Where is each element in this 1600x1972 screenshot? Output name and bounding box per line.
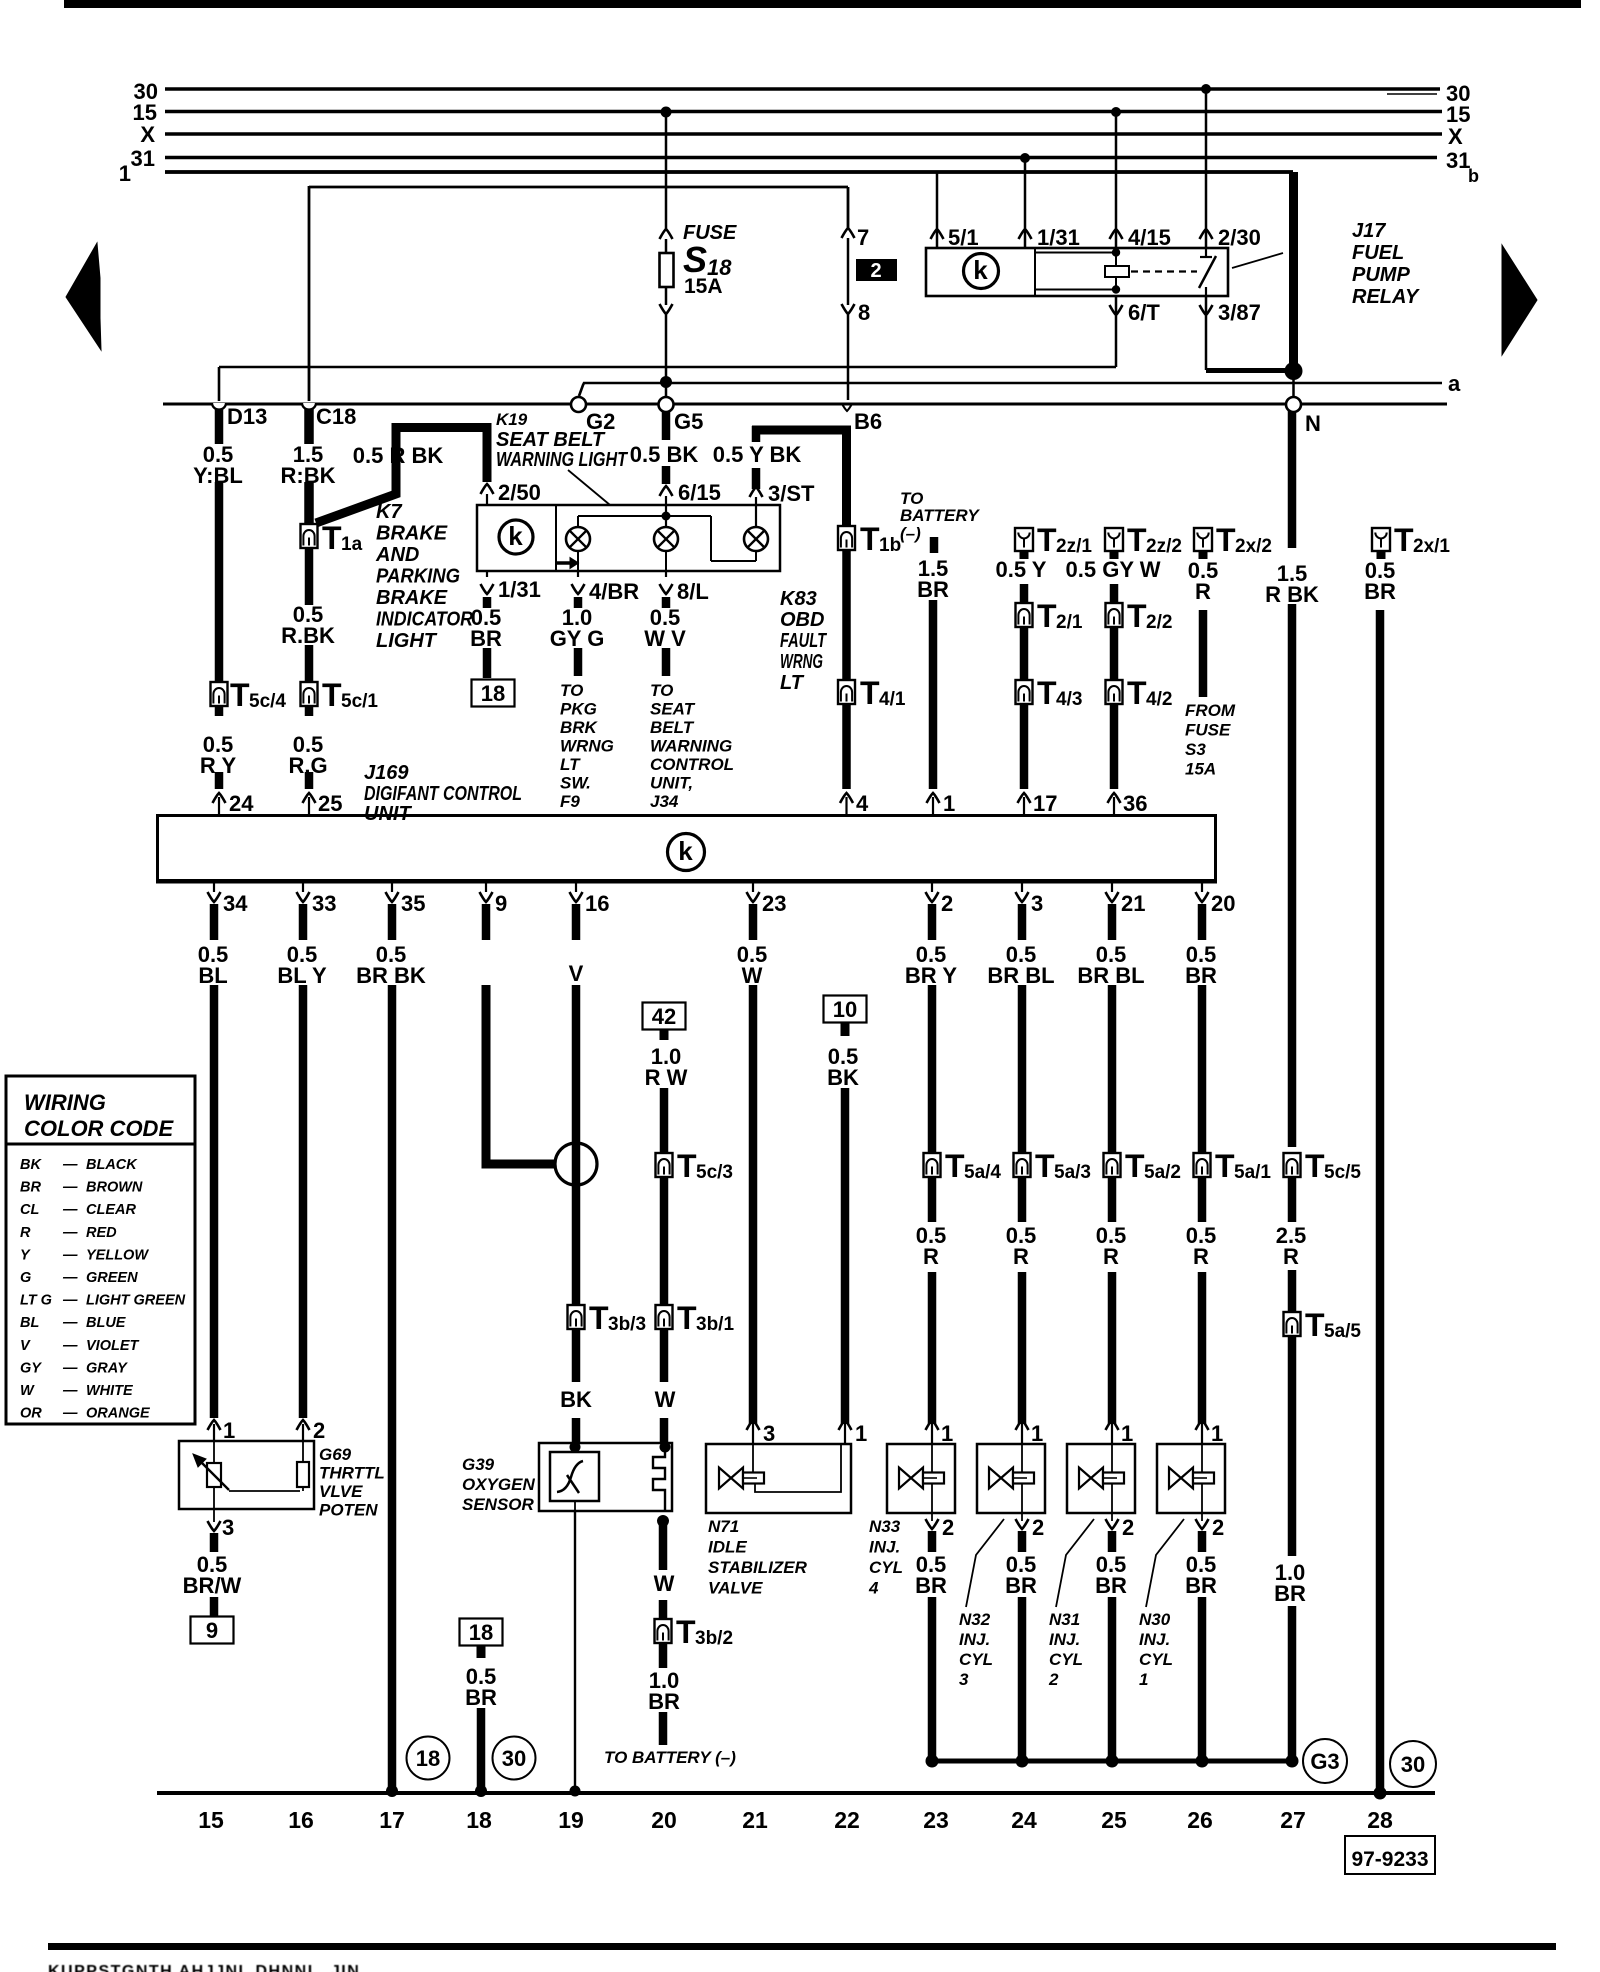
svg-text:G: G (20, 1270, 31, 1286)
svg-text:1: 1 (941, 1421, 953, 1446)
svg-text:BL: BL (20, 1315, 39, 1331)
wire T4/1 to J169 pin 4 (842, 704, 851, 789)
svg-text:BR: BR (470, 626, 502, 651)
svg-text:FUSE: FUSE (1185, 721, 1231, 740)
svg-text:25: 25 (1101, 1807, 1127, 1833)
connector T3b/1 (656, 1305, 673, 1329)
relay J17 box (926, 248, 1228, 296)
injector N33 cylinder 4 (887, 1444, 955, 1513)
svg-text:R.BK: R.BK (281, 623, 335, 648)
svg-text:2: 2 (941, 891, 953, 916)
wire T4/3 to J169 pin 17 (1020, 704, 1029, 789)
relay J17 divider (1034, 248, 1036, 296)
svg-text:BR: BR (465, 1685, 497, 1710)
svg-text:1: 1 (1121, 1421, 1133, 1446)
connector T5a/5 (1284, 1312, 1301, 1336)
svg-text:5c/4: 5c/4 (249, 691, 286, 712)
svg-text:6/15: 6/15 (678, 480, 721, 505)
svg-text:OXYGEN: OXYGEN (462, 1475, 535, 1494)
svg-text:BR: BR (915, 1573, 947, 1598)
svg-text:17: 17 (1033, 791, 1057, 816)
terminal C18 (302, 403, 316, 410)
svg-text:23: 23 (923, 1807, 949, 1833)
svg-text:Y: Y (20, 1247, 31, 1263)
G69 pin 1 (213, 1424, 215, 1441)
svg-text:VALVE: VALVE (708, 1579, 763, 1598)
svg-text:k: k (973, 255, 988, 285)
svg-text:T: T (1394, 522, 1414, 558)
svg-text:INDICATOR: INDICATOR (376, 609, 473, 631)
svg-text:23: 23 (762, 891, 786, 916)
svg-text:GRAY: GRAY (86, 1360, 128, 1376)
connector T2x/2 (1194, 528, 1212, 551)
K7 pin 8/L (665, 571, 667, 577)
K7 / K19 / K83 lamp box (477, 505, 780, 571)
svg-text:BRAKE: BRAKE (376, 523, 448, 545)
svg-text:BATTERY: BATTERY (900, 506, 980, 525)
svg-text:2: 2 (1032, 1515, 1044, 1540)
wire 0.5 R BK to K19 lamp feed (316, 428, 487, 524)
svg-text:DIGIFANT CONTROL: DIGIFANT CONTROL (364, 783, 522, 805)
terminal D13 (212, 403, 226, 410)
svg-text:J169: J169 (364, 762, 409, 784)
connector T2/1 (1016, 603, 1033, 627)
J169 pin 24 (218, 797, 220, 814)
svg-text:3: 3 (222, 1515, 234, 1540)
throttle valve potentiometer G69 box (179, 1441, 314, 1509)
K7 pin 3/ST (750, 487, 763, 497)
junction dot track 18 rail (475, 1785, 487, 1797)
connector T1b (838, 526, 855, 550)
connector T2z/2 (1105, 528, 1123, 551)
wire 34 to G69 pin 1 (210, 985, 219, 1418)
svg-text:J17: J17 (1352, 220, 1386, 242)
svg-text:1: 1 (1211, 1421, 1223, 1446)
svg-text:W: W (654, 1571, 675, 1596)
svg-text:10: 10 (833, 997, 857, 1022)
wire between connectors 7 and 8 (847, 238, 850, 305)
G69 potentiometer element (213, 1441, 215, 1463)
svg-text:SW.: SW. (560, 774, 591, 793)
wire D13 column lower (0.5 R Y) (215, 706, 224, 716)
svg-text:—: — (62, 1202, 78, 1218)
svg-text:7: 7 (857, 225, 869, 250)
inline connector 7 (842, 228, 855, 238)
G39 lambda probe symbol (550, 1452, 599, 1501)
svg-text:97-9233: 97-9233 (1351, 1848, 1428, 1871)
svg-text:LIGHT GREEN: LIGHT GREEN (86, 1293, 186, 1309)
svg-text:24: 24 (229, 791, 254, 816)
svg-text:X: X (1448, 124, 1463, 149)
wire N column upper (1.5 R BK) (1288, 411, 1297, 548)
svg-text:SEAT BELT: SEAT BELT (496, 429, 606, 451)
border bar top (64, 0, 1581, 8)
svg-text:POTEN: POTEN (319, 1501, 378, 1520)
control unit J169 box (156, 814, 1217, 817)
svg-text:CONTROL: CONTROL (650, 755, 734, 774)
junction dot track 19 rail (570, 1786, 581, 1797)
wire T1b to T4/1 (842, 550, 851, 682)
wire ground 18 (0.5 BR) (477, 1645, 486, 1658)
svg-text:D13: D13 (227, 404, 267, 429)
wire T5a/5 down (1.0 BR) (1288, 1336, 1297, 1556)
svg-text:IDLE: IDLE (708, 1538, 747, 1557)
wire 8/L stub (0.5 W V) (662, 597, 671, 608)
wire T3b/1 to G39 (W) (660, 1329, 669, 1382)
wire 3 column with T5a/3 (1018, 985, 1027, 1222)
svg-text:S3: S3 (1185, 740, 1206, 759)
svg-text:8/L: 8/L (677, 579, 709, 604)
svg-text:18: 18 (481, 681, 505, 706)
bus X (165, 132, 1442, 136)
connector 2 (black box) (856, 259, 897, 281)
N71 pin 3 (752, 1424, 754, 1444)
svg-text:0.5 Y BK: 0.5 Y BK (713, 442, 802, 467)
relay pin 2/30 wire (1201, 84, 1211, 94)
svg-text:0.5 Y: 0.5 Y (996, 557, 1047, 582)
relay J17 coil (1035, 252, 1116, 254)
svg-text:BR BK: BR BK (356, 963, 426, 988)
lamp K7 (brake warning) (654, 527, 678, 551)
connector T2x/1 (1372, 528, 1390, 551)
svg-text:T: T (1127, 598, 1147, 634)
svg-text:CYL: CYL (1139, 1650, 1173, 1669)
svg-text:T: T (676, 1614, 696, 1650)
relay J17 label leader (1232, 253, 1283, 268)
diagram number 97-9233 (1345, 1836, 1435, 1874)
svg-text:—: — (62, 1247, 78, 1263)
svg-text:3b/3: 3b/3 (608, 1314, 646, 1335)
relay pin 4/15 wire (1111, 107, 1121, 117)
injector N31 cylinder 2 (1067, 1444, 1135, 1513)
svg-text:V: V (569, 961, 584, 986)
svg-text:9: 9 (206, 1618, 218, 1643)
wire 4/BR stub (1.0 GY G) (574, 597, 583, 608)
wire C18 column below T1a (0.5 R/BK) (305, 548, 314, 605)
connector T5c/1 (301, 682, 318, 706)
lamp K83 (OBD fault warning) (744, 527, 768, 551)
junction dots injector bus (926, 1755, 939, 1768)
terminal B6 (842, 403, 853, 411)
svg-text:CLEAR: CLEAR (86, 1202, 136, 1218)
svg-text:WRNG: WRNG (560, 737, 614, 756)
wire 9 to splice (486, 985, 556, 1164)
svg-text:25: 25 (318, 791, 342, 816)
svg-text:N: N (1305, 411, 1321, 436)
svg-text:21: 21 (1121, 891, 1145, 916)
relay J17 switch (1131, 270, 1197, 272)
svg-text:19: 19 (558, 1807, 584, 1833)
K7 pin 1/31 (486, 571, 488, 577)
svg-text:BL: BL (198, 963, 227, 988)
ground symbol circle 30 (left) (493, 1737, 536, 1780)
svg-text:R BK: R BK (1265, 582, 1319, 607)
wire 0.5 Y BK elbow from T1b column (752, 430, 847, 527)
svg-text:T: T (1216, 522, 1236, 558)
svg-text:15A: 15A (684, 275, 723, 298)
svg-text:BR: BR (1095, 1573, 1127, 1598)
svg-text:N32: N32 (959, 1610, 991, 1629)
svg-text:3b/2: 3b/2 (695, 1628, 733, 1649)
wire 35 to ground rail (388, 985, 397, 1791)
svg-text:5/1: 5/1 (948, 225, 979, 250)
svg-text:WRNG: WRNG (780, 651, 823, 673)
bus 31 (165, 156, 1437, 160)
connector T4/3 (1016, 680, 1033, 704)
svg-text:BLUE: BLUE (86, 1315, 127, 1331)
svg-text:1: 1 (943, 791, 955, 816)
wire 3/87 to bus 31b drop (1206, 368, 1293, 373)
boxed ref 42 (643, 1003, 686, 1030)
svg-text:CL: CL (20, 1202, 39, 1218)
terminal G2 (571, 397, 586, 412)
svg-text:R W: R W (645, 1065, 688, 1090)
svg-text:BK: BK (20, 1157, 42, 1173)
svg-text:BR/W: BR/W (183, 1573, 242, 1598)
svg-text:K7: K7 (376, 501, 402, 523)
wire connector 8 to terminal B6 (847, 314, 850, 400)
wire C18 to bus level (308, 186, 311, 401)
J169 pin 23 (752, 884, 754, 893)
wire 1/31 to ground ref 18 (0.5 BR) (483, 597, 492, 608)
K7 internal wiring (578, 515, 711, 517)
junction dot fuse / line a (660, 376, 672, 388)
svg-text:27: 27 (1280, 1807, 1306, 1833)
relay pin 1/31 wire (1020, 153, 1030, 163)
border bar bottom (48, 1943, 1556, 1950)
svg-text:T: T (322, 677, 342, 713)
svg-text:TO BATTERY (–): TO BATTERY (–) (604, 1748, 736, 1767)
bus 15 (165, 110, 1442, 114)
svg-text:T: T (860, 521, 880, 557)
J169 pin 4 (845, 797, 847, 814)
svg-text:T: T (230, 677, 250, 713)
svg-text:R: R (923, 1244, 939, 1269)
J169 pin 1 (932, 797, 934, 814)
svg-text:—: — (62, 1406, 78, 1422)
svg-text:3: 3 (1031, 891, 1043, 916)
svg-text:42: 42 (652, 1004, 676, 1029)
bus 30 (165, 87, 1440, 91)
svg-text:BR Y: BR Y (905, 963, 957, 988)
relay pin 5/1 wire (936, 172, 939, 248)
J169 pin 36 (1113, 797, 1115, 814)
wire T2x/1 column to bottom rail (1376, 610, 1385, 1791)
svg-text:BR: BR (1274, 1581, 1306, 1606)
injector N32 cylinder 3 (977, 1444, 1045, 1513)
svg-text:0.5 R BK: 0.5 R BK (353, 443, 444, 468)
svg-text:WIRING: WIRING (24, 1090, 106, 1115)
connector T5c/4 (211, 682, 228, 706)
wire 2 column with T5a/4 (928, 985, 937, 1222)
wire fuse feed from bus 15 (665, 112, 668, 231)
svg-text:BR: BR (1364, 579, 1396, 604)
boxed ref 10 (824, 996, 867, 1023)
svg-text:9: 9 (495, 891, 507, 916)
svg-text:G3: G3 (1310, 1749, 1339, 1774)
svg-text:X: X (140, 122, 155, 147)
wire G5 to K7 pin 6/15 (0.5 BK) (662, 411, 671, 440)
svg-text:CYL: CYL (869, 1558, 903, 1577)
connector T4/1 (838, 680, 855, 704)
svg-text:R: R (1195, 579, 1211, 604)
svg-text:N33: N33 (869, 1517, 901, 1536)
svg-text:VIOLET: VIOLET (86, 1338, 140, 1354)
bottom rail (track line) (157, 1791, 1435, 1795)
fuse S18 (660, 229, 673, 239)
K7 pin 6/15 (660, 486, 673, 496)
K7 indicator symbol circle (499, 520, 533, 554)
svg-text:2x/1: 2x/1 (1413, 536, 1450, 557)
svg-text:INJ.: INJ. (869, 1538, 900, 1557)
svg-text:BR: BR (1185, 963, 1217, 988)
svg-text:W V: W V (644, 626, 686, 651)
svg-text:3: 3 (959, 1670, 969, 1689)
left continuation arrow (66, 243, 101, 350)
svg-text:UNIT: UNIT (364, 803, 412, 825)
svg-text:21: 21 (742, 1807, 768, 1833)
svg-text:2/30: 2/30 (1218, 225, 1261, 250)
svg-text:1: 1 (119, 161, 131, 186)
svg-text:PARKING: PARKING (376, 566, 460, 588)
caption (illegible scan) (48, 1963, 360, 1972)
K7 pin 2/50 (481, 484, 494, 494)
junction dot wire 35 / rail (386, 1785, 398, 1797)
svg-text:F9: F9 (560, 792, 580, 811)
svg-text:TO: TO (650, 681, 673, 700)
svg-text:CYL: CYL (959, 1650, 993, 1669)
ground symbol circle 18 (407, 1737, 450, 1780)
wire T4/2 to J169 pin 36 (1110, 704, 1119, 789)
svg-text:INJ.: INJ. (1049, 1630, 1080, 1649)
svg-text:1b: 1b (879, 535, 901, 556)
svg-text:T: T (1037, 675, 1057, 711)
terminal N (1286, 397, 1301, 412)
svg-text:N30: N30 (1139, 1610, 1171, 1629)
svg-text:R: R (1103, 1244, 1119, 1269)
wire 31b drop to terminal N (1292, 371, 1295, 397)
svg-text:R: R (1193, 1244, 1209, 1269)
wire 42 column to T5c/3 (660, 1088, 669, 1155)
svg-text:N31: N31 (1049, 1610, 1080, 1629)
relay pin 6/T wire (1115, 296, 1118, 367)
svg-text:1/31: 1/31 (1037, 225, 1080, 250)
svg-text:T: T (1215, 1148, 1235, 1184)
J169 pin 9 (485, 884, 487, 893)
junction dot bus15 / fuse S18 (661, 107, 672, 118)
svg-text:T: T (322, 520, 342, 556)
svg-text:T: T (1305, 1148, 1325, 1184)
svg-text:k: k (508, 521, 523, 551)
J169 pin 34 (213, 884, 215, 893)
connector T3b/2 (655, 1619, 672, 1643)
K7 pin 4/BR (577, 571, 579, 577)
svg-text:28: 28 (1367, 1807, 1393, 1833)
svg-text:4/BR: 4/BR (589, 579, 639, 604)
svg-text:T: T (1037, 598, 1057, 634)
svg-text:20: 20 (1211, 891, 1235, 916)
inline connector 8 (842, 304, 855, 314)
svg-text:G39: G39 (462, 1455, 495, 1474)
svg-text:AND: AND (375, 544, 419, 566)
svg-text:BR: BR (1005, 1573, 1037, 1598)
svg-text:5c/1: 5c/1 (341, 691, 378, 712)
svg-text:2: 2 (870, 260, 881, 282)
svg-text:16: 16 (288, 1807, 314, 1833)
wire 10 column to N71 pin 1 (841, 1088, 850, 1424)
svg-text:COLOR CODE: COLOR CODE (24, 1116, 174, 1141)
svg-text:ORANGE: ORANGE (86, 1406, 151, 1422)
oxygen sensor G39 box (539, 1443, 672, 1511)
wire C18 column (1.5 R/BK) (304, 409, 314, 444)
svg-text:N71: N71 (708, 1517, 739, 1536)
J169 pin 20 (1201, 884, 1203, 893)
svg-text:LIGHT: LIGHT (376, 630, 438, 652)
svg-text:b: b (1468, 166, 1479, 186)
wire 20 column with T5a/1 (1198, 985, 1207, 1222)
connector T4/2 (1106, 680, 1123, 704)
J169 pin 33 (302, 884, 304, 893)
svg-text:PUMP: PUMP (1352, 264, 1410, 286)
svg-text:FUEL: FUEL (1352, 242, 1404, 264)
svg-text:4/3: 4/3 (1056, 689, 1082, 710)
splice circle on wire 16 (572, 985, 581, 1305)
N71 valve symbol (719, 1468, 731, 1489)
wire T2/2 to T4/2 (1110, 627, 1119, 682)
svg-text:CYL: CYL (1049, 1650, 1083, 1669)
wire G69 pin 3 (0.5 BR/W) (210, 1533, 219, 1552)
svg-text:17: 17 (379, 1807, 405, 1833)
J169 pin 2 (931, 884, 933, 893)
svg-text:BR BL: BR BL (1077, 963, 1144, 988)
wire 33 to G69 pin 2 (299, 985, 308, 1418)
wire G39 heater ground (W / 1.0 BR) (659, 1521, 668, 1570)
svg-text:INJ.: INJ. (1139, 1630, 1170, 1649)
junction dot 31b / 3/87 / line a (1285, 362, 1303, 380)
svg-text:4/15: 4/15 (1128, 225, 1171, 250)
connector T3b/3 (568, 1305, 585, 1329)
svg-text:LT: LT (560, 755, 581, 774)
svg-text:T: T (677, 1300, 697, 1336)
svg-text:R: R (1283, 1244, 1299, 1269)
connector T1a (301, 524, 318, 548)
svg-text:4/2: 4/2 (1146, 689, 1172, 710)
svg-text:5a/3: 5a/3 (1054, 1162, 1091, 1183)
J169 internal symbol circle (668, 834, 705, 871)
wiring color code legend box (6, 1076, 195, 1424)
svg-text:1: 1 (1031, 1421, 1043, 1446)
wire N column to T5a/5 (1288, 1177, 1297, 1222)
svg-text:34: 34 (223, 891, 248, 916)
wire D13 column (0.5 Y/BL) (215, 409, 224, 444)
svg-text:4/1: 4/1 (879, 689, 906, 710)
G69 pin 3 (213, 1509, 215, 1522)
svg-text:—: — (62, 1338, 78, 1354)
wire 21 column with T5a/2 (1108, 985, 1117, 1222)
ground ref box 18 (bottom) (460, 1619, 503, 1646)
svg-text:T: T (677, 1148, 697, 1184)
wire T2z/1 to T2/1 (1020, 584, 1029, 605)
svg-text:—: — (62, 1225, 78, 1241)
wire fuse to node a / G5 (665, 314, 668, 397)
J169 pin 25 (308, 797, 310, 814)
svg-text:3: 3 (763, 1421, 775, 1446)
svg-text:2/50: 2/50 (498, 480, 541, 505)
svg-text:31: 31 (1446, 148, 1470, 173)
svg-text:VLVE: VLVE (319, 1482, 363, 1501)
N71 pin 1 (844, 1424, 846, 1444)
wire T2z/2 to T2/2 (1110, 584, 1119, 605)
